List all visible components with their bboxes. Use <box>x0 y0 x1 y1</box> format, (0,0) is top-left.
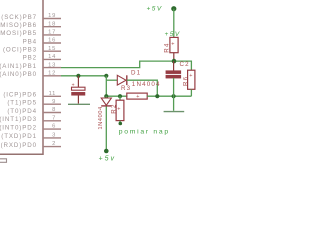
pin 12 (AIN0)PB0 <box>0 71 61 79</box>
wire lower rail right part <box>147 95 191 97</box>
svg-text:(T0)PD4: (T0)PD4 <box>7 108 37 115</box>
svg-text:1N4004: 1N4004 <box>132 81 161 88</box>
svg-text:15: 15 <box>48 46 56 52</box>
svg-text:19: 19 <box>48 13 56 19</box>
svg-text:+: + <box>72 82 75 88</box>
svg-text:(INT1)PD3: (INT1)PD3 <box>0 116 37 123</box>
node pomiar nap wire end <box>119 122 123 126</box>
svg-text:13: 13 <box>48 62 56 68</box>
node junction C1 tap <box>76 74 80 78</box>
wire C2 top lead <box>173 61 175 71</box>
svg-text:(ICP)PD6: (ICP)PD6 <box>3 92 37 99</box>
wire C2 bottom lead <box>173 78 175 96</box>
ground symbol right <box>164 111 185 113</box>
wire D1 cathode to lower rail <box>127 80 158 96</box>
resistor R3 <box>127 93 147 100</box>
pin 6 (INT0)PD2 <box>0 124 61 132</box>
svg-text:R3: R3 <box>121 85 131 92</box>
svg-text:PB4: PB4 <box>23 38 37 45</box>
pin 9 (T1)PD5 <box>7 99 61 107</box>
capacitor C2 <box>166 71 181 78</box>
pin 15 (OC1)PB3 <box>3 46 61 54</box>
wire C1 top lead <box>77 76 79 87</box>
pin 11 (ICP)PD6 <box>3 91 61 99</box>
svg-text:+: + <box>117 107 120 113</box>
wire R6 bottom lead <box>190 89 192 96</box>
svg-text:9: 9 <box>52 99 56 105</box>
svg-text:2: 2 <box>52 141 56 147</box>
svg-text:3: 3 <box>52 133 56 139</box>
IC U1 box <box>0 0 43 154</box>
svg-text:R4: R4 <box>163 42 170 52</box>
resistor R6 <box>188 70 195 89</box>
svg-text:(AIN1)PB1: (AIN1)PB1 <box>0 63 37 70</box>
svg-text:(MOSI)PB5: (MOSI)PB5 <box>0 30 37 37</box>
svg-text:12: 12 <box>48 71 56 77</box>
svg-text:D1: D1 <box>131 70 141 77</box>
wire net AIN0 from pin 12 <box>61 75 106 77</box>
svg-text:7: 7 <box>52 115 56 121</box>
wire R4 bottom lead <box>173 53 175 62</box>
svg-text:6: 6 <box>52 124 56 130</box>
pin 3 (TXD)PD1 <box>1 133 61 141</box>
wire D2 cathode down to +5v <box>105 107 107 152</box>
svg-text:(SCK)PB7: (SCK)PB7 <box>1 14 37 21</box>
pin 7 (INT1)PD3 <box>0 115 61 123</box>
resistor R2 <box>116 96 124 120</box>
node junction at pin12 net corner <box>104 74 108 78</box>
svg-text:(RXD)PD0: (RXD)PD0 <box>1 142 37 149</box>
pin 19 (SCK)PB7 <box>1 13 61 21</box>
svg-text:(INT0)PD2: (INT0)PD2 <box>0 124 37 131</box>
diode D1 <box>117 75 127 85</box>
svg-text:C2: C2 <box>180 61 190 68</box>
svg-text:PB2: PB2 <box>23 55 37 62</box>
svg-text:17: 17 <box>48 30 56 36</box>
svg-text:+: + <box>136 94 139 100</box>
wire vertical left column <box>105 76 107 96</box>
svg-text:(MISO)PB6: (MISO)PB6 <box>0 22 37 29</box>
svg-text:14: 14 <box>48 54 56 60</box>
pin 17 (MOSI)PB5 <box>0 30 61 38</box>
diode D2 vertical <box>101 96 111 106</box>
node junction D2/R2 column <box>104 94 108 98</box>
node junction C2/GND on rail <box>172 94 176 98</box>
pin 18 (MISO)PB6 <box>0 21 61 29</box>
svg-text:(TXD)PD1: (TXD)PD1 <box>1 133 37 140</box>
svg-text:(T1)PD5: (T1)PD5 <box>7 100 37 107</box>
supply +5v bottom node <box>104 149 109 154</box>
IC name fragment bottom left <box>0 159 7 163</box>
pin 8 (T0)PD4 <box>7 107 61 115</box>
svg-text:+: + <box>171 41 174 47</box>
pin 13 (AIN1)PB1 <box>0 62 61 70</box>
pin 2 (RXD)PD0 <box>1 141 61 149</box>
wire +5V down to R4 <box>173 9 175 38</box>
svg-text:pomiar nap: pomiar nap <box>119 128 170 135</box>
wire R2 bottom stub <box>119 121 121 123</box>
node junction R2 top <box>118 94 122 98</box>
svg-text:+: + <box>189 73 192 79</box>
svg-text:(OCI)PB3: (OCI)PB3 <box>3 47 37 54</box>
svg-text:+5V: +5V <box>147 6 163 13</box>
resistor R4 <box>170 37 178 52</box>
wire lower rail <box>106 95 127 97</box>
svg-text:8: 8 <box>52 107 56 113</box>
capacitor C1 polarized <box>72 82 86 103</box>
svg-text:1N4004: 1N4004 <box>98 106 104 130</box>
node junction D1 cathode on rail <box>155 94 159 98</box>
svg-text:+5v: +5v <box>99 156 116 163</box>
wire GND stub right <box>173 96 175 111</box>
svg-text:(AIN0)PB0: (AIN0)PB0 <box>0 71 37 78</box>
node junction R4/C2 on AIN1 net <box>172 59 177 64</box>
ground symbol under C1 <box>68 103 90 105</box>
wire D1 anode lead <box>106 79 117 81</box>
pin 14 PB2 <box>23 54 61 62</box>
svg-text:18: 18 <box>48 21 56 27</box>
svg-text:16: 16 <box>48 38 56 44</box>
wire net AIN1 from pin 13 <box>61 61 191 70</box>
supply +5V top symbol <box>171 6 176 11</box>
svg-text:+5V: +5V <box>165 31 181 38</box>
pin 16 PB4 <box>23 38 61 46</box>
svg-text:11: 11 <box>49 91 57 97</box>
